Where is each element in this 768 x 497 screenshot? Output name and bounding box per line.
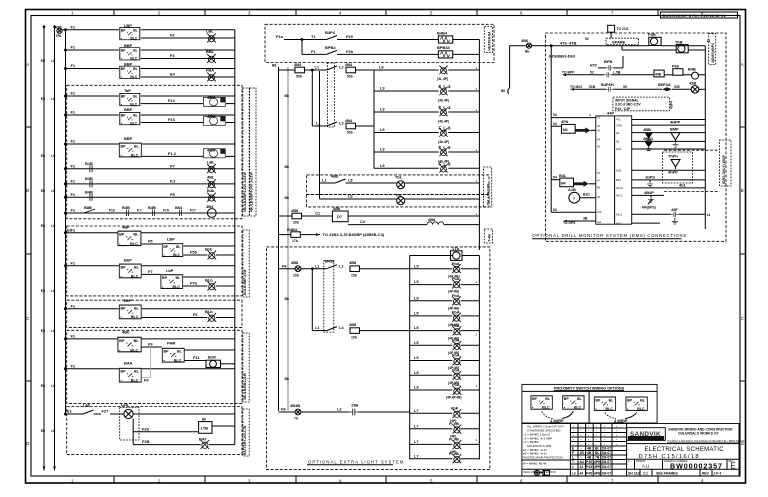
svg-text:F1: F1 — [71, 208, 76, 213]
svg-text:C3W: C3W — [616, 123, 622, 127]
svg-text:B4P4: B4P4 — [325, 30, 336, 35]
lamp FL4 b — [438, 105, 479, 123]
pin wire 54 a — [551, 113, 596, 117]
svg-text:-: - — [616, 433, 617, 437]
svg-text:44B: 44B — [655, 72, 662, 76]
svg-text:TbL-LTP-21W: TbL-LTP-21W — [487, 183, 491, 205]
svg-text:L5: L5 — [414, 279, 419, 284]
svg-text:L1: L1 — [315, 65, 320, 70]
svg-text:L5: L5 — [414, 263, 419, 268]
svg-text:OPTIONAL DRILL MONITOR SYSTEM: OPTIONAL DRILL MONITOR SYSTEM (DMS) CONN… — [532, 233, 687, 238]
svg-text:SPARE: SPARE — [612, 39, 626, 44]
svg-text:(4b.4P): (4b.4P) — [438, 98, 449, 102]
svg-text:→M4(DPS): →M4(DPS) — [639, 205, 656, 209]
svg-text:F7: F7 — [148, 269, 153, 274]
svg-text:4B4B: 4B4B — [290, 403, 300, 408]
svg-text:Lb: Lb — [51, 189, 55, 193]
svg-text:L3: L3 — [337, 407, 342, 412]
svg-text:FbF: FbF — [451, 405, 459, 410]
triangle option dashed box — [663, 152, 693, 183]
svg-text:52: 52 — [590, 70, 594, 74]
svg-text:BPB44: BPB44 — [437, 45, 451, 50]
svg-text:LbP: LbP — [166, 268, 174, 273]
pin row r7 — [616, 178, 705, 182]
heater element 2 — [437, 45, 479, 58]
svg-text:44: 44 — [580, 465, 584, 469]
svg-text:30b: 30b — [293, 221, 299, 225]
lamp FL6 b — [438, 145, 479, 163]
svg-text:-: - — [588, 429, 589, 433]
svg-text:4Bb: 4Bb — [122, 329, 130, 334]
svg-text:L: L — [572, 456, 574, 460]
rung 1: relay LBP — [66, 23, 235, 40]
svg-text:OPTIONAL EXTRA LIGHT SYSTEM: OPTIONAL EXTRA LIGHT SYSTEM — [308, 459, 404, 464]
svg-text:BLF: BLF — [124, 298, 132, 303]
svg-text:43B: 43B — [689, 81, 696, 86]
svg-text:4HPP: 4HPP — [670, 120, 681, 125]
rotated label col A — [243, 88, 256, 216]
pin wire 54 d — [551, 208, 596, 212]
relay P4R — [648, 32, 705, 46]
extra light right bus — [476, 256, 480, 460]
svg-text:H1D: H1D — [616, 147, 621, 151]
svg-text:T-4B: T-4B — [488, 234, 492, 242]
title rule — [627, 443, 739, 445]
rung 6: relay BBP + motor — [66, 136, 235, 157]
svg-text:50b: 50b — [347, 75, 353, 79]
svg-text:Eb: Eb — [41, 429, 45, 433]
svg-text:Bb: Bb — [285, 165, 289, 169]
pin row r9 — [616, 190, 664, 198]
svg-text:4B4: 4B4 — [206, 204, 214, 209]
svg-text:-: - — [604, 438, 605, 442]
svg-text:(4P.4P.4B): (4P.4P.4B) — [446, 396, 462, 400]
connector X1 — [596, 116, 632, 225]
svg-text:ELECTRICAL SCHEMATIC: ELECTRICAL SCHEMATIC — [645, 447, 725, 453]
drawing subtitle — [639, 454, 700, 460]
svg-text:B4B4: B4B4 — [437, 30, 448, 35]
svg-text:LBL: LBL — [207, 159, 215, 164]
lamp FL4 a — [438, 84, 479, 102]
svg-text:C1: C1 — [315, 211, 321, 216]
rotated label col C — [243, 333, 249, 402]
svg-text:D8-07: D8-07 — [602, 472, 611, 476]
title block — [522, 424, 746, 477]
svg-text:B0: B0 — [501, 89, 505, 93]
drawing title text — [645, 447, 725, 453]
lamp g2-1 — [448, 323, 479, 341]
mid neutral rail — [285, 67, 289, 411]
svg-text:-: - — [604, 442, 605, 446]
lamp g2-5 — [446, 382, 479, 400]
cascade A: relay BBP — [66, 225, 235, 246]
branch rung L9 a — [374, 70, 439, 168]
svg-text:B4B: B4B — [148, 205, 156, 210]
branch rung L9 c — [374, 127, 439, 132]
svg-text:55: 55 — [623, 85, 627, 89]
lamp rung g2-3 — [410, 355, 453, 360]
svg-text:PROXIMITY SWITCH WIRING OPTION: PROXIMITY SWITCH WIRING OPTIONS — [554, 387, 625, 391]
svg-text:-: - — [581, 447, 582, 451]
heater element 1 — [437, 30, 479, 43]
svg-text:F1: F1 — [71, 139, 76, 144]
svg-text:SANDVIK MINING AND CONSTRUCTIO: SANDVIK MINING AND CONSTRUCTION — [669, 427, 734, 431]
svg-text:4BB: 4BB — [643, 127, 651, 132]
left border ticks and letters — [26, 127, 32, 381]
svg-text:F1.2: F1.2 — [168, 151, 177, 156]
svg-text:4 WIRE: 4 WIRE — [550, 418, 564, 423]
svg-text:L7: L7 — [414, 453, 419, 458]
svg-text:F1: F1 — [71, 163, 76, 168]
switch L4b — [66, 402, 124, 414]
svg-text:PHR: PHR — [167, 340, 175, 345]
left feed bus — [550, 46, 552, 213]
top-right doc number box — [661, 12, 738, 18]
svg-text:TO 41B3-3,J5 B4DBP (43B6B-C4): TO 41B3-3,J5 B4DBP (43B6B-C4) — [323, 232, 385, 237]
svg-text:B: B — [26, 188, 29, 193]
lamp rung g1-3 — [410, 295, 453, 300]
svg-text:BbP: BbP — [124, 258, 132, 263]
svg-text:4B6: 4B6 — [521, 38, 529, 43]
diode stack r3 — [643, 127, 652, 140]
svg-text:B4P6H: B4P6H — [601, 82, 614, 87]
lamp LBL rung7 — [207, 159, 216, 173]
svg-text:P45: P45 — [586, 472, 592, 476]
svg-text:-: - — [573, 442, 574, 446]
svg-text:4T6 4TB: 4T6 4TB — [560, 40, 577, 45]
svg-text:A1B: A1B — [568, 187, 576, 192]
rung 5: relay BBP + motor — [66, 107, 235, 125]
svg-text:(DMS ONLY) 4B4P: (DMS ONLY) 4B4P — [722, 154, 726, 184]
heater rung 2 — [302, 40, 438, 55]
supply rail 2 — [51, 25, 56, 471]
gnd r10 — [672, 218, 678, 224]
svg-text:T: T — [572, 460, 574, 464]
svg-text:C2: C2 — [360, 219, 366, 224]
dashed group box D — [67, 407, 242, 455]
svg-text:411: 411 — [597, 220, 602, 224]
svg-text:4PR: 4PR — [594, 460, 601, 464]
wire C2 with coil — [348, 217, 479, 224]
svg-text:TWISTED PAIR PROTECTION: TWISTED PAIR PROTECTION — [523, 456, 563, 460]
lamp g3-1 — [450, 405, 479, 423]
svg-text:4B4: 4B4 — [345, 62, 353, 67]
svg-text:D: D — [26, 441, 29, 446]
svg-text:F27: F27 — [102, 409, 110, 414]
svg-text:D8-07: D8-07 — [602, 460, 611, 464]
lamp g1-4 — [448, 310, 479, 328]
svg-text:A: A — [26, 62, 29, 67]
feed drop wire — [501, 46, 510, 94]
right bus — [234, 30, 236, 445]
svg-text:Eb: Eb — [41, 154, 45, 158]
box 44B — [654, 70, 673, 77]
svg-text:-: - — [573, 429, 574, 433]
sandvik logo — [627, 428, 666, 441]
svg-text:Eb: Eb — [41, 224, 45, 228]
svg-text:-: - — [581, 438, 582, 442]
rotated strip right of box — [709, 34, 716, 65]
dashed link upper — [664, 149, 720, 151]
svg-text:OULUNSALO WORKS OY: OULUNSALO WORKS OY — [678, 432, 719, 436]
svg-text:A4: A4 — [616, 131, 620, 135]
svg-text:4B8: 4B8 — [333, 206, 341, 211]
svg-text:F6: F6 — [282, 263, 287, 268]
svg-text:-: - — [588, 442, 589, 446]
svg-text:Lb: Lb — [51, 224, 55, 228]
svg-text:BAT: BAT — [199, 437, 207, 442]
lamp g3-4 — [449, 451, 479, 463]
rotated label col D — [243, 409, 249, 456]
svg-text:B1D: B1D — [583, 193, 590, 197]
extra light switch rung 2 — [312, 322, 409, 340]
TL dashed box 1 — [307, 175, 489, 195]
svg-text:-: - — [616, 438, 617, 442]
svg-text:FL0B: FL0B — [449, 421, 459, 426]
svg-text:-: - — [596, 433, 597, 437]
rotated option strip — [720, 140, 732, 186]
svg-text:(4b.4P): (4b.4P) — [438, 119, 449, 123]
svg-text:B4B4: B4B4 — [287, 227, 298, 232]
svg-text:F1: F1 — [71, 260, 76, 265]
switch linkage dashed — [324, 261, 334, 332]
spare dashed box — [606, 38, 639, 45]
svg-text:-: - — [573, 433, 574, 437]
relay 4PA — [561, 119, 596, 133]
svg-text:F2B: F2B — [142, 439, 150, 444]
node E1 bottom — [67, 409, 73, 414]
wire 4T6 — [545, 37, 648, 47]
svg-text:-: - — [604, 433, 605, 437]
svg-text:(4b.4P): (4b.4P) — [438, 140, 449, 144]
svg-text:4PR: 4PR — [594, 465, 601, 469]
svg-text:REV: REV — [702, 472, 710, 476]
svg-text:B3B: B3B — [122, 205, 130, 210]
dashed group box B — [67, 300, 242, 327]
svg-text:44: 44 — [580, 472, 584, 476]
svg-text:H1L2: H1L2 — [616, 213, 623, 217]
svg-text:L.5B: L.5B — [613, 71, 621, 75]
relay element B1R — [206, 355, 235, 368]
pin wire 54 c — [551, 175, 560, 179]
right bus DMS — [705, 39, 710, 229]
svg-text:BL: BL — [595, 447, 599, 451]
svg-text:L8: L8 — [348, 194, 353, 199]
prox relay 2 — [563, 396, 584, 410]
svg-text:4BULB-BBP4-24V 3x21W: 4BULB-BBP4-24V 3x21W — [250, 171, 254, 212]
svg-text:B4L: B4L — [559, 173, 567, 178]
svg-text:F7b: F7b — [190, 281, 198, 286]
pin row r11 — [616, 221, 660, 225]
svg-text:L9: L9 — [414, 295, 419, 300]
lamp g1-1 — [448, 261, 479, 279]
svg-text:4BB1: 4BB1 — [643, 136, 654, 141]
contact HTD — [590, 56, 623, 71]
svg-text:FBA: FBA — [206, 68, 214, 73]
svg-text:4B4: 4B4 — [294, 62, 302, 67]
prox relay 1 — [531, 396, 552, 410]
svg-text:M4: M4 — [561, 181, 566, 185]
svg-text:P66: P66 — [672, 64, 680, 69]
rung 4: relay TaP + motor — [66, 88, 235, 106]
lamp 4BL rung8 — [207, 175, 216, 189]
svg-text:P.O.BOX 4 FIN-90441 OULUNSALO: P.O.BOX 4 FIN-90441 OULUNSALO FINLAND TE… — [668, 439, 747, 443]
rung 3: relay BBP2 — [66, 62, 235, 79]
svg-text:TRL: TRL — [56, 34, 63, 38]
prox title — [554, 387, 625, 391]
lamp FL1 — [437, 66, 479, 81]
svg-text:L5: L5 — [414, 311, 419, 316]
svg-text:F1: F1 — [71, 363, 76, 368]
relay 4B8 — [332, 206, 479, 222]
svg-text:4PB: 4PB — [594, 472, 601, 476]
svg-text:-: - — [604, 424, 605, 428]
label 1bPS — [645, 175, 655, 187]
number row — [627, 459, 739, 470]
svg-text:L9: L9 — [380, 127, 385, 132]
svg-text:L5: L5 — [414, 325, 419, 330]
svg-text:BPB4: BPB4 — [325, 45, 336, 50]
svg-text:F1: F1 — [71, 91, 76, 96]
svg-text:TO 21G: TO 21G — [617, 27, 629, 31]
svg-text:-: - — [588, 438, 589, 442]
svg-text:535: 535 — [674, 85, 680, 89]
drop wire — [132, 419, 134, 445]
prox arcs right — [605, 413, 637, 419]
gnd r9 — [648, 195, 654, 202]
svg-text:C: C — [26, 316, 29, 321]
svg-text:M4: M4 — [563, 128, 568, 132]
lamp rung g2-5 — [410, 385, 453, 390]
svg-text:Lb: Lb — [51, 329, 55, 333]
svg-text:Lb: Lb — [51, 154, 55, 158]
svg-text:2 P 4: 2 P 4 — [714, 472, 722, 476]
svg-text:A: A — [741, 62, 744, 67]
lamp LBL rung1 — [206, 29, 216, 43]
wire TO DPS — [563, 217, 596, 225]
mid left bus — [272, 64, 279, 411]
revision grid — [570, 424, 626, 477]
svg-text:F1: F1 — [71, 24, 76, 29]
lamp BAT — [199, 437, 235, 449]
svg-text:4B4: 4B4 — [345, 118, 353, 123]
svg-text:(4L.4P): (4L.4P) — [437, 77, 448, 81]
node E1 cascade — [67, 228, 73, 233]
net label 3-D63 — [549, 54, 576, 59]
label 44P — [607, 110, 614, 115]
lamp TbL 1 — [395, 174, 479, 188]
lamp rung g1-2 — [410, 279, 453, 284]
heater rotated label — [484, 27, 492, 53]
svg-text:F.7: F.7 — [137, 209, 142, 213]
rung 2: relay BBP — [66, 43, 235, 60]
TL rotated label — [484, 167, 492, 207]
lamp rung g3-2 — [410, 423, 453, 428]
svg-text:-: - — [581, 433, 582, 437]
cascade A: relay LBP — [162, 236, 235, 257]
svg-text:HEATER-B4: HEATER-B4 — [488, 31, 492, 50]
svg-text:50b: 50b — [296, 75, 302, 79]
svg-text:4b1: 4b1 — [679, 183, 687, 188]
svg-text:F29: F29 — [346, 34, 354, 39]
input signal dashed box — [613, 97, 674, 111]
svg-text:L8: L8 — [348, 178, 353, 183]
svg-text:4B8: 4B8 — [349, 260, 357, 265]
pin row r2 — [616, 120, 705, 128]
svg-text:H1C2: H1C2 — [616, 186, 623, 190]
svg-text:L3: L3 — [339, 121, 344, 126]
svg-text:4BP: 4BP — [122, 225, 130, 230]
svg-text:F9: F9 — [148, 342, 153, 347]
svg-text:F1: F1 — [71, 192, 76, 197]
svg-text:44L2: 44L2 — [616, 221, 622, 225]
svg-text:L1: L1 — [316, 121, 321, 126]
svg-text:LTB: LTB — [201, 426, 209, 431]
svg-text:FL0B: FL0B — [449, 437, 459, 442]
svg-text:4T1: 4T1 — [616, 118, 621, 122]
bottom info row — [627, 469, 739, 476]
horn 4B4 — [206, 204, 216, 218]
svg-text:50b: 50b — [347, 131, 353, 135]
svg-text:7b: 7b — [294, 417, 298, 421]
lamp g2-4 — [448, 367, 479, 385]
svg-text:54: 54 — [553, 175, 557, 179]
meter A1B — [568, 187, 596, 203]
svg-text:F8: F8 — [281, 407, 286, 412]
diode stack r4 — [643, 136, 654, 150]
svg-text:BL: BL — [595, 451, 599, 455]
TL feed wire — [319, 71, 321, 199]
svg-text:F2: F2 — [170, 33, 175, 38]
horn rung 10 — [66, 205, 235, 216]
left ladder section — [41, 23, 256, 471]
svg-text:F1: F1 — [71, 227, 76, 232]
svg-text:TbL: TbL — [395, 174, 403, 179]
svg-text:15b: 15b — [351, 335, 357, 339]
svg-text:F12: F12 — [168, 98, 176, 103]
prox caption 3wire — [614, 418, 628, 423]
lamp rung g3-4 — [410, 453, 453, 458]
lamp FL6 a — [438, 126, 479, 144]
svg-text:B4b: B4b — [207, 188, 215, 193]
svg-text:3B: 3B — [583, 217, 588, 221]
svg-text:3-D63B63-D63: 3-D63B63-D63 — [549, 54, 576, 59]
proximity switch options box — [522, 384, 657, 423]
svg-text:54: 54 — [553, 208, 557, 212]
svg-text:B6P3A: B6P3A — [658, 82, 671, 87]
lamp rung g2-4 — [410, 370, 453, 375]
svg-text:BAA: BAA — [124, 360, 133, 365]
svg-text:-: - — [604, 429, 605, 433]
svg-text:Lb: Lb — [51, 97, 55, 101]
svg-text:14: 14 — [707, 213, 711, 217]
svg-text:Bb: Bb — [285, 297, 289, 301]
svg-text:L9: L9 — [379, 65, 384, 70]
svg-text:4B8: 4B8 — [349, 322, 357, 327]
wire to bus — [133, 413, 235, 415]
svg-text:L9: L9 — [380, 86, 385, 91]
svg-text:-: - — [616, 429, 617, 433]
bottom ruler ticks — [114, 476, 658, 483]
boxed lamp top — [410, 246, 480, 261]
main fuse 4MF — [54, 25, 66, 39]
lamp rung g2-1 — [410, 325, 453, 330]
svg-text:F5: F5 — [148, 239, 153, 244]
svg-text:H1C3: H1C3 — [616, 194, 623, 198]
svg-text:-: - — [588, 433, 589, 437]
svg-text:4BL: 4BL — [207, 175, 215, 180]
lamp FBA rung3 — [206, 68, 216, 82]
